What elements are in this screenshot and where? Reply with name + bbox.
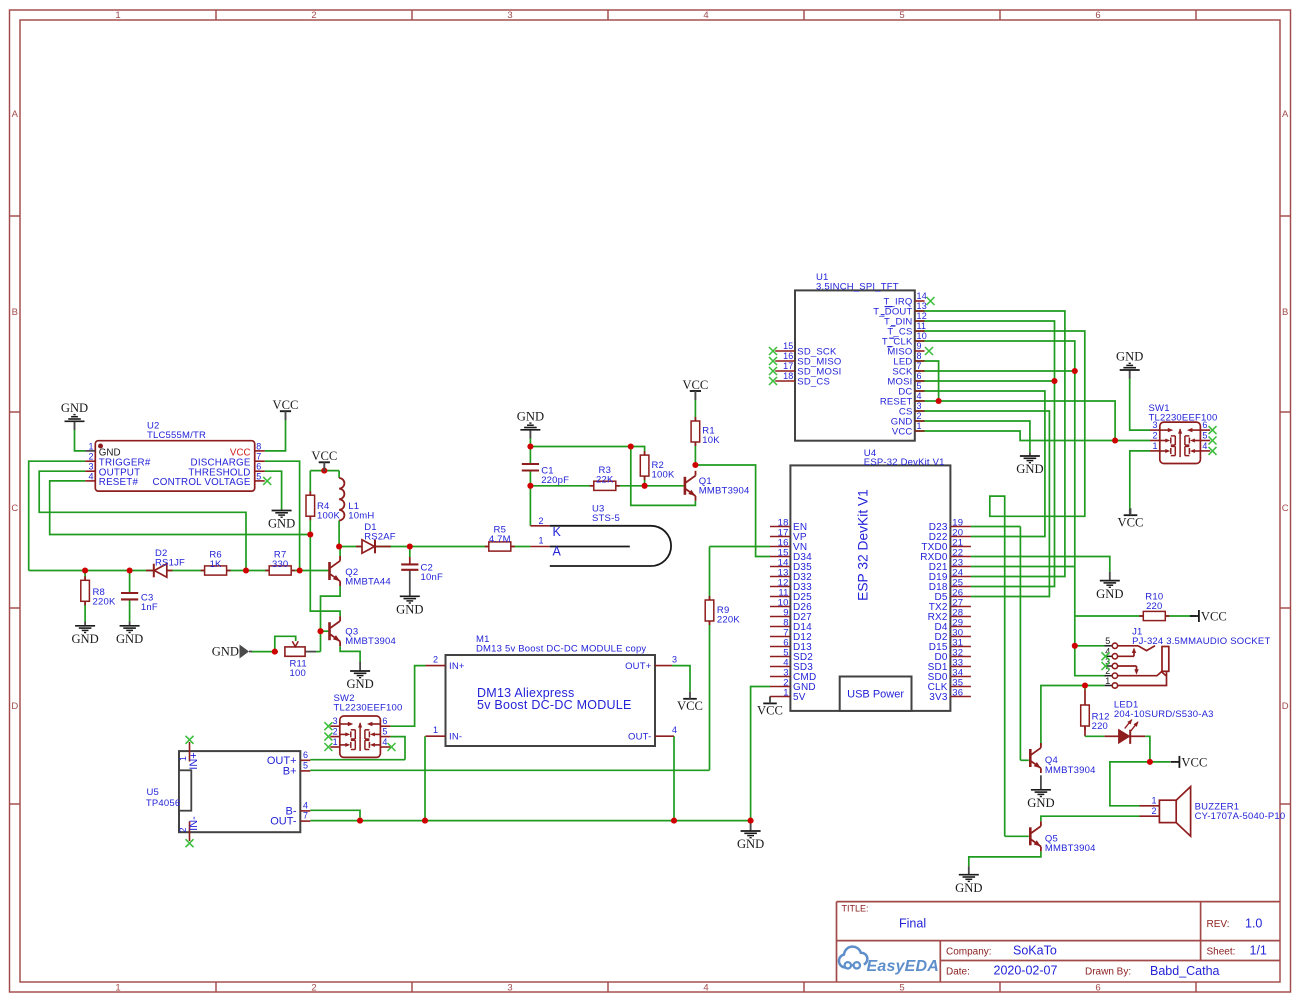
svg-text:3V3: 3V3: [929, 692, 948, 703]
svg-text:1: 1: [917, 421, 922, 431]
svg-text:1: 1: [1151, 796, 1156, 806]
svg-text:2: 2: [333, 727, 338, 737]
svg-text:5: 5: [256, 471, 261, 481]
svg-text:2: 2: [88, 452, 93, 462]
svg-text:12: 12: [917, 311, 927, 321]
svg-text:1: 1: [178, 756, 188, 761]
svg-text:RS2AF: RS2AF: [364, 532, 396, 543]
svg-text:RS1JF: RS1JF: [155, 558, 185, 569]
svg-text:C: C: [1282, 503, 1289, 514]
svg-text:VCC: VCC: [311, 449, 337, 463]
svg-text:1nF: 1nF: [141, 602, 158, 613]
svg-text:1: 1: [1105, 676, 1110, 686]
svg-text:1: 1: [1152, 441, 1157, 451]
svg-text:Babd_Catha: Babd_Catha: [1150, 964, 1220, 978]
svg-text:C: C: [11, 503, 18, 514]
svg-text:5: 5: [899, 10, 904, 21]
svg-text:13: 13: [917, 301, 927, 311]
svg-text:7: 7: [256, 452, 261, 462]
svg-text:GND: GND: [737, 837, 764, 851]
svg-text:10mH: 10mH: [348, 511, 374, 522]
svg-text:4.7M: 4.7M: [489, 534, 511, 545]
svg-text:16: 16: [783, 351, 793, 361]
svg-text:B: B: [1282, 307, 1288, 318]
svg-text:GND: GND: [396, 603, 423, 617]
svg-text:5: 5: [303, 761, 308, 771]
svg-text:VCC: VCC: [273, 398, 299, 412]
svg-text:VCC: VCC: [1201, 610, 1227, 624]
svg-text:7: 7: [917, 361, 922, 371]
svg-text:OUT-: OUT-: [628, 732, 652, 743]
svg-text:1: 1: [783, 687, 788, 698]
svg-text:3: 3: [333, 716, 338, 726]
svg-text:100: 100: [290, 668, 306, 679]
svg-text:100K: 100K: [652, 470, 675, 481]
svg-text:GND: GND: [1016, 462, 1043, 476]
svg-text:1K: 1K: [210, 559, 222, 570]
svg-text:GND: GND: [268, 517, 295, 531]
svg-text:2: 2: [917, 411, 922, 421]
svg-text:D: D: [11, 701, 18, 712]
svg-text:4: 4: [672, 725, 677, 735]
svg-text:A: A: [12, 109, 19, 120]
svg-text:IN+: IN+: [449, 661, 465, 672]
svg-text:VCC: VCC: [677, 699, 703, 713]
svg-text:B+: B+: [283, 766, 297, 778]
svg-text:K: K: [553, 525, 562, 539]
svg-text:4: 4: [1202, 441, 1207, 451]
svg-text:10K: 10K: [702, 435, 720, 446]
svg-text:TLC555M/TR: TLC555M/TR: [147, 430, 206, 441]
svg-text:ESP-32 DevKit V1: ESP-32 DevKit V1: [864, 457, 945, 468]
svg-text:8: 8: [256, 441, 261, 451]
svg-text:4: 4: [88, 471, 93, 481]
svg-text:TITLE:: TITLE:: [842, 904, 869, 914]
svg-text:B: B: [12, 307, 18, 318]
svg-text:5: 5: [917, 381, 922, 391]
svg-text:VCC: VCC: [1118, 515, 1144, 529]
svg-text:220pF: 220pF: [541, 475, 569, 486]
svg-text:1: 1: [115, 10, 120, 21]
svg-text:VCC: VCC: [892, 426, 913, 437]
svg-text:MMBTA44: MMBTA44: [345, 576, 391, 587]
svg-text:3: 3: [507, 982, 512, 993]
svg-text:5: 5: [899, 982, 904, 993]
svg-text:GND: GND: [116, 632, 143, 646]
svg-text:2: 2: [538, 516, 543, 526]
svg-text:11: 11: [917, 321, 927, 331]
svg-text:SD_CS: SD_CS: [797, 376, 830, 387]
svg-text:VCC: VCC: [1181, 756, 1207, 770]
svg-text:6: 6: [382, 716, 387, 726]
svg-text:MMBT3904: MMBT3904: [345, 636, 396, 647]
svg-text:17: 17: [783, 361, 793, 371]
svg-text:3: 3: [88, 462, 93, 472]
svg-text:3: 3: [672, 655, 677, 665]
svg-text:CONTROL VOLTAGE: CONTROL VOLTAGE: [153, 477, 251, 488]
svg-text:TL2230EEF100: TL2230EEF100: [334, 703, 403, 714]
svg-text:220: 220: [1092, 721, 1108, 732]
svg-text:4: 4: [917, 391, 922, 401]
svg-text:3: 3: [507, 10, 512, 21]
svg-text:4: 4: [703, 982, 708, 993]
svg-text:10nF: 10nF: [421, 572, 443, 583]
svg-text:MMBT3904: MMBT3904: [1045, 843, 1096, 854]
svg-text:3: 3: [917, 401, 922, 411]
svg-text:REV:: REV:: [1207, 919, 1230, 930]
svg-text:Final: Final: [899, 917, 926, 931]
svg-text:A: A: [553, 545, 562, 559]
svg-text:STS-5: STS-5: [592, 513, 620, 524]
svg-text:OUT-: OUT-: [270, 816, 297, 828]
svg-text:1.0: 1.0: [1245, 917, 1262, 931]
svg-text:MMBT3904: MMBT3904: [699, 486, 750, 497]
svg-text:4: 4: [303, 801, 308, 811]
svg-text:9: 9: [917, 341, 922, 351]
svg-text:2: 2: [311, 10, 316, 21]
svg-text:330: 330: [272, 559, 288, 570]
svg-text:1: 1: [538, 536, 543, 546]
svg-text:36: 36: [952, 687, 963, 698]
svg-text:100K: 100K: [317, 511, 340, 522]
svg-text:8: 8: [917, 351, 922, 361]
svg-text:1: 1: [115, 982, 120, 993]
svg-text:6: 6: [303, 750, 308, 760]
svg-text:5: 5: [1105, 636, 1110, 646]
svg-text:GND: GND: [61, 401, 88, 415]
svg-text:4: 4: [703, 10, 708, 21]
svg-text:5: 5: [1202, 431, 1207, 441]
svg-text:5: 5: [382, 727, 387, 737]
svg-text:VCC: VCC: [757, 704, 783, 718]
svg-text:D: D: [1282, 701, 1289, 712]
svg-text:IN-: IN-: [188, 816, 200, 831]
svg-text:2: 2: [178, 827, 188, 832]
svg-text:U5: U5: [147, 787, 160, 798]
svg-text:TL2230EEF100: TL2230EEF100: [1149, 413, 1218, 424]
svg-text:VCC: VCC: [682, 378, 708, 392]
svg-text:Drawn By:: Drawn By:: [1085, 967, 1131, 978]
svg-text:Company:: Company:: [946, 947, 992, 958]
svg-text:ESP 32 DevKit V1: ESP 32 DevKit V1: [856, 489, 871, 601]
svg-text:14: 14: [917, 291, 927, 301]
svg-text:OUT+: OUT+: [625, 661, 652, 672]
svg-text:GND: GND: [346, 677, 373, 691]
svg-text:GND: GND: [1027, 796, 1054, 810]
svg-text:GND: GND: [212, 645, 239, 659]
svg-text:1: 1: [88, 441, 93, 451]
svg-text:220K: 220K: [717, 615, 740, 626]
svg-text:PJ-324 3.5MMAUDIO SOCKET: PJ-324 3.5MMAUDIO SOCKET: [1132, 636, 1270, 647]
svg-text:SoKaTo: SoKaTo: [1013, 944, 1057, 958]
svg-text:Sheet:: Sheet:: [1207, 947, 1236, 958]
svg-text:3.5INCH_SPI_TFT: 3.5INCH_SPI_TFT: [816, 281, 899, 292]
svg-text:EasyEDA: EasyEDA: [867, 958, 940, 975]
svg-text:18: 18: [783, 371, 793, 381]
svg-text:2: 2: [311, 982, 316, 993]
svg-text:220: 220: [1146, 601, 1162, 612]
svg-text:1: 1: [433, 725, 438, 735]
svg-text:USB Power: USB Power: [847, 689, 904, 701]
svg-text:7: 7: [303, 811, 308, 821]
svg-text:6: 6: [256, 462, 261, 472]
svg-text:2: 2: [1152, 431, 1157, 441]
svg-text:5V: 5V: [793, 692, 806, 703]
svg-text:2: 2: [433, 655, 438, 665]
svg-text:2020-02-07: 2020-02-07: [994, 964, 1058, 978]
svg-text:4: 4: [382, 737, 387, 747]
svg-text:GND: GND: [517, 410, 544, 424]
svg-text:15: 15: [783, 341, 793, 351]
svg-text:GND: GND: [1116, 350, 1143, 364]
svg-text:Date:: Date:: [946, 967, 970, 978]
svg-text:A: A: [1282, 109, 1289, 120]
svg-text:MMBT3904: MMBT3904: [1045, 765, 1096, 776]
svg-text:204-10SURD/S530-A3: 204-10SURD/S530-A3: [1114, 709, 1214, 720]
svg-text:220K: 220K: [93, 597, 116, 608]
svg-text:IN+: IN+: [188, 752, 200, 769]
svg-text:DM13 5v Boost DC-DC MODULE cop: DM13 5v Boost DC-DC MODULE copy: [476, 644, 646, 655]
svg-text:5v Boost DC-DC MODULE: 5v Boost DC-DC MODULE: [477, 698, 632, 712]
svg-text:10: 10: [917, 331, 927, 341]
svg-text:2: 2: [1151, 806, 1156, 816]
svg-text:GND: GND: [955, 881, 982, 895]
svg-text:1: 1: [333, 737, 338, 747]
svg-text:6: 6: [1095, 982, 1100, 993]
svg-text:6: 6: [1095, 10, 1100, 21]
svg-text:TP4056: TP4056: [146, 798, 180, 809]
svg-text:RESET#: RESET#: [99, 477, 139, 488]
svg-text:6: 6: [917, 371, 922, 381]
svg-text:GND: GND: [1096, 587, 1123, 601]
svg-text:CY-1707A-5040-P10: CY-1707A-5040-P10: [1195, 811, 1286, 822]
svg-text:1/1: 1/1: [1250, 944, 1267, 958]
svg-text:22K: 22K: [596, 474, 614, 485]
svg-text:IN-: IN-: [449, 732, 462, 743]
svg-text:GND: GND: [71, 632, 98, 646]
